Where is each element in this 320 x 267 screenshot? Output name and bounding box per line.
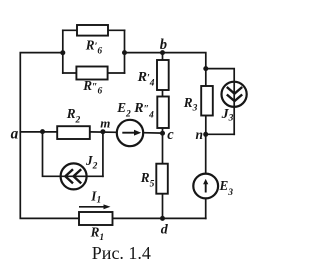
resistor R1 bbox=[79, 212, 113, 225]
node junction dot R3/J3 split bbox=[203, 66, 208, 71]
wire J3 branch lower to node n bbox=[206, 133, 235, 135]
svg-text:m: m bbox=[100, 115, 110, 130]
wire E3 to bottom rail bbox=[205, 198, 207, 218]
source J2 circle bbox=[61, 163, 87, 189]
svg-text:E2: E2 bbox=[116, 100, 131, 120]
wire node b horizontal to top-right corner bbox=[125, 53, 206, 69]
source E3 arrow bbox=[203, 179, 208, 193]
wire R'4 to R''4 bbox=[162, 90, 164, 97]
svg-text:J2: J2 bbox=[85, 153, 98, 172]
source J3 chevrons bbox=[227, 87, 242, 101]
svg-text:c: c bbox=[167, 127, 174, 143]
svg-text:d: d bbox=[161, 223, 169, 238]
svg-text:I1: I1 bbox=[90, 189, 101, 206]
wire parallel-combo left vertical bbox=[62, 30, 64, 73]
wire R5 to d bbox=[162, 194, 164, 219]
resistor R''4 bbox=[157, 97, 169, 129]
source E2 circle bbox=[117, 120, 143, 146]
svg-text:b: b bbox=[160, 37, 167, 53]
node junction dot combo-right bbox=[122, 50, 127, 55]
node m dot bbox=[100, 129, 105, 134]
svg-text:R2: R2 bbox=[66, 106, 81, 126]
source E3 circle bbox=[193, 174, 218, 199]
resistor R'6 bbox=[77, 25, 108, 36]
wire J2 loop: down, across through J2 bbox=[43, 132, 103, 176]
wire n to E3 bbox=[205, 134, 207, 173]
current I1 arrow bbox=[79, 204, 111, 209]
node n dot bbox=[203, 132, 208, 137]
svg-text:a: a bbox=[11, 126, 19, 143]
wire parallel-combo top branch bbox=[63, 29, 125, 31]
wire J2 loop right vertical up to m bbox=[102, 132, 104, 176]
wire b to R'4 bbox=[162, 53, 164, 60]
node b dot bbox=[160, 50, 165, 55]
wire R3 branch upper bbox=[205, 69, 207, 86]
resistor R2 bbox=[57, 126, 90, 139]
svg-text:R1: R1 bbox=[90, 224, 105, 243]
node c dot bbox=[160, 131, 165, 136]
node junction dot combo-left bbox=[60, 50, 65, 55]
wire a to R2 bbox=[20, 131, 57, 133]
source J3 circle bbox=[222, 82, 247, 107]
wire parallel-combo right vertical bbox=[124, 30, 126, 73]
wire R3 branch lower to n bbox=[205, 116, 207, 135]
wire c to R5 bbox=[162, 133, 164, 163]
node junction dot J2 tap bbox=[40, 129, 45, 134]
svg-text:R5: R5 bbox=[140, 170, 155, 189]
svg-text:E3: E3 bbox=[219, 178, 234, 198]
source J2 chevrons bbox=[65, 169, 81, 183]
wire R''4 to c bbox=[162, 128, 164, 133]
svg-text:n: n bbox=[196, 127, 204, 142]
svg-text:J3: J3 bbox=[221, 107, 234, 124]
wire top-left corner to left rail down to bottom rail bbox=[20, 53, 206, 219]
svg-text:R″4: R″4 bbox=[133, 101, 154, 121]
wire E2 to c bbox=[143, 132, 162, 134]
resistor R3 bbox=[201, 86, 213, 116]
svg-text:R′4: R′4 bbox=[137, 70, 155, 89]
svg-text:R3: R3 bbox=[183, 95, 198, 113]
source E2 arrow bbox=[122, 130, 141, 136]
svg-text:R′6: R′6 bbox=[85, 38, 103, 57]
wire parallel-combo bottom branch bbox=[63, 72, 125, 74]
resistor R''6 bbox=[76, 67, 107, 80]
resistor R'4 bbox=[157, 60, 169, 90]
svg-text:Рис. 1.4: Рис. 1.4 bbox=[92, 243, 151, 263]
node d dot bbox=[160, 216, 165, 221]
svg-text:R″6: R″6 bbox=[82, 78, 102, 97]
resistor R5 bbox=[156, 164, 168, 194]
wire R2 to m to E2 bbox=[90, 131, 117, 133]
wire J3 branch upper bbox=[206, 69, 234, 135]
